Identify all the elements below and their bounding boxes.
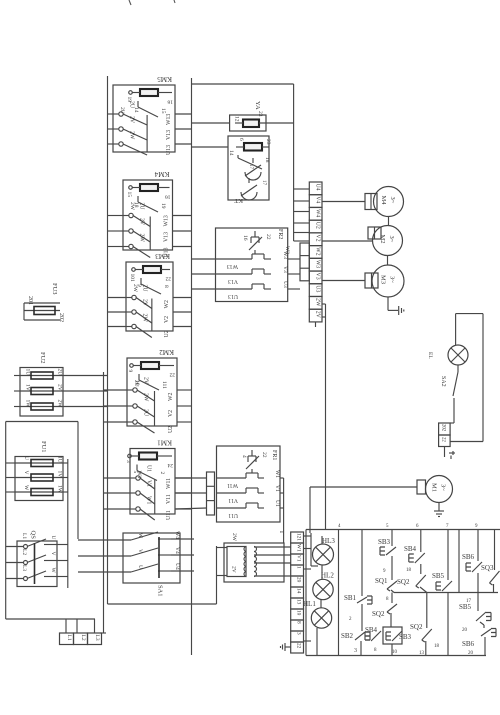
wire PE chain M4-M2 — [388, 216, 390, 226]
svg-text:W3: W3 — [314, 260, 320, 268]
limit switch SQ2 — [387, 604, 397, 612]
svg-text:3~: 3~ — [440, 484, 447, 491]
svg-text:6: 6 — [238, 138, 244, 141]
indicator lamp HL1 — [311, 608, 331, 628]
svg-text:W1: W1 — [296, 544, 302, 552]
motor M3 terminal box — [365, 273, 378, 288]
wire to SQ2 — [391, 593, 393, 604]
svg-text:FR1: FR1 — [271, 450, 277, 460]
wire stub below strip — [315, 322, 317, 327]
svg-text:SQ2: SQ2 — [397, 578, 410, 586]
wire strip V2 to M2 — [322, 240, 373, 242]
terminal L3 — [88, 633, 102, 645]
svg-text:6: 6 — [416, 524, 419, 529]
svg-text:23: 23 — [265, 139, 271, 145]
svg-text:W2: W2 — [164, 300, 170, 308]
transformer secondary winding — [254, 547, 257, 577]
svg-text:2U: 2U — [133, 380, 139, 387]
KT delayed contact 1 — [252, 158, 254, 163]
page edge tick marks — [129, 0, 131, 5]
main contact KM3 pole 3 — [126, 326, 132, 328]
svg-text:1V: 1V — [57, 471, 63, 478]
svg-text:U1: U1 — [146, 465, 152, 472]
svg-text:2W: 2W — [231, 533, 237, 542]
switch QS pole 3 — [6, 578, 24, 580]
main contact KM3 pole 2 — [126, 311, 132, 313]
wire SQ2 down — [390, 613, 392, 627]
pushbutton SB5 NC (lower) — [476, 612, 486, 621]
svg-text:2W: 2W — [129, 131, 135, 140]
svg-text:U2: U2 — [314, 222, 320, 229]
wire stubs from panel edge to strip — [294, 188, 310, 190]
wire SB4 to SQ2 — [420, 564, 422, 574]
fuse FU2 element 1 — [20, 375, 63, 377]
switch SA1 pole 2 — [78, 555, 131, 557]
svg-text:3: 3 — [354, 648, 357, 654]
terminal 2V — [309, 309, 322, 322]
terminal W3 — [309, 258, 322, 271]
wire bus stubs to KM4 — [108, 215, 124, 217]
thermal relay FR2 — [216, 228, 288, 302]
wire HL2-HL1 — [320, 600, 322, 609]
svg-text:SQ2: SQ2 — [410, 623, 423, 631]
terminal mini-strip at FR2 output — [300, 243, 309, 281]
wire bus stubs to KM2 — [104, 389, 128, 391]
FR2 heater element 2 — [216, 273, 253, 275]
svg-text:8: 8 — [163, 285, 169, 288]
svg-text:W2: W2 — [168, 393, 174, 401]
svg-text:U13: U13 — [228, 293, 238, 299]
svg-text:V4: V4 — [314, 196, 320, 203]
motor M2 — [373, 226, 403, 256]
transformer T — [224, 543, 284, 582]
pushbutton SB3 — [386, 547, 396, 555]
fuse FU1 element 3 — [15, 491, 63, 493]
wire terminal drops — [65, 619, 67, 633]
svg-text:2W: 2W — [139, 234, 145, 243]
svg-text:V11: V11 — [166, 494, 172, 504]
coil YA — [243, 120, 259, 128]
wire control rail 2 — [338, 530, 340, 656]
svg-text:14: 14 — [296, 588, 302, 594]
svg-text:KM4: KM4 — [154, 170, 169, 178]
svg-text:U3: U3 — [282, 281, 288, 288]
terminal mini-strip before FR1 — [207, 472, 215, 515]
svg-text:M1: M1 — [431, 483, 438, 492]
fuse FU2 element 2 — [20, 390, 63, 392]
main contact KM1 pole 2 — [130, 492, 136, 494]
svg-text:2U: 2U — [142, 285, 148, 293]
svg-text:3~: 3~ — [389, 197, 396, 204]
svg-text:8: 8 — [374, 648, 377, 653]
ground symbol below M3 — [387, 297, 389, 310]
svg-text:15: 15 — [160, 108, 166, 114]
ground at control strip — [285, 646, 291, 648]
svg-text:SB5: SB5 — [459, 603, 472, 611]
main contact tie bar KM4 — [149, 217, 151, 251]
svg-text:17: 17 — [261, 180, 266, 186]
FR1 heater element 1 — [217, 477, 247, 479]
svg-text:SB5: SB5 — [432, 572, 445, 580]
svg-text:V13: V13 — [228, 278, 238, 284]
wire HL3 feed loop — [310, 533, 312, 566]
wire lighting circuit right side — [482, 314, 484, 442]
svg-text:W1: W1 — [136, 471, 142, 479]
wire FU1 right stubs — [63, 462, 68, 464]
svg-text:SB3: SB3 — [399, 633, 412, 641]
svg-text:16: 16 — [242, 235, 248, 241]
terminal 3 — [291, 631, 304, 642]
svg-text:V13: V13 — [166, 130, 172, 140]
svg-text:W4: W4 — [314, 209, 320, 217]
svg-text:L1: L1 — [66, 635, 72, 641]
svg-text:SB4: SB4 — [404, 545, 417, 553]
svg-text:SB1: SB1 — [344, 594, 357, 602]
svg-text:M3: M3 — [380, 275, 387, 284]
wire SB2 bottom — [360, 641, 362, 656]
svg-text:L3: L3 — [94, 635, 100, 641]
svg-text:U11: U11 — [228, 512, 238, 518]
solenoid YA — [230, 115, 266, 131]
svg-text:2W: 2W — [129, 202, 135, 211]
main contact tie bar KM5 — [146, 115, 148, 152]
enclosure: power panel boundary — [192, 83, 294, 85]
svg-text:8: 8 — [296, 621, 302, 624]
main contact tie bar KM3 — [151, 299, 153, 332]
wire mid horizontal rail — [394, 592, 498, 594]
svg-text:SQ3: SQ3 — [481, 564, 494, 572]
FR2 heater element 1 — [216, 258, 253, 260]
svg-text:3: 3 — [296, 632, 302, 635]
wire strip 2V stub — [322, 316, 326, 318]
terminal 10 — [291, 609, 304, 620]
pushbutton SB5 — [442, 581, 452, 591]
main contact tie bar KM1 — [154, 479, 156, 514]
svg-text:V1: V1 — [296, 555, 302, 562]
wire to bottom — [484, 637, 486, 656]
svg-text:2V: 2V — [231, 566, 237, 573]
wire M1 feed drop to control box — [309, 487, 311, 533]
main contact KM2 pole 3 — [127, 421, 133, 423]
pushbutton SB6 NC (lower) — [481, 629, 491, 636]
svg-text:2: 2 — [159, 472, 165, 475]
fuse FU1 element 2 — [15, 477, 63, 479]
svg-text:2V: 2V — [57, 384, 63, 391]
svg-text:L3: L3 — [21, 565, 27, 571]
svg-text:101: 101 — [129, 274, 135, 283]
svg-text:7: 7 — [446, 524, 449, 529]
svg-text:EL: EL — [427, 352, 433, 359]
contactor KM5 box — [113, 85, 175, 152]
wire SB5 NC branch — [477, 593, 479, 612]
wire FU1 left stubs to supply riser — [6, 462, 15, 464]
svg-text:V: V — [137, 549, 143, 553]
motor M4 — [374, 187, 404, 217]
terminal U2 — [309, 220, 322, 233]
svg-text:SQ1: SQ1 — [375, 577, 388, 585]
svg-text:U3: U3 — [314, 285, 320, 292]
fuse FU1 element 1 — [15, 462, 63, 464]
svg-text:U: U — [50, 536, 56, 540]
switch QS tie bar — [34, 543, 36, 584]
svg-text:9: 9 — [127, 370, 133, 373]
switch QS pole 1 — [6, 546, 24, 548]
wire bus stubs to KM3 — [108, 297, 127, 299]
main contact KM5 pole 3 — [113, 143, 119, 145]
ground below M1 — [438, 503, 440, 512]
svg-text:SA2: SA2 — [440, 376, 446, 387]
svg-text:1W: 1W — [25, 400, 31, 409]
wires KM1 outputs to FR1 terminals — [175, 477, 207, 479]
terminal 1 — [291, 565, 304, 576]
pushbutton SB4 (lower) — [371, 631, 381, 641]
fuse group FU1 — [15, 457, 63, 501]
svg-text:3~: 3~ — [388, 236, 395, 243]
wire SB5 branch upper — [447, 530, 449, 581]
svg-text:2U: 2U — [143, 409, 149, 417]
svg-text:4: 4 — [241, 455, 247, 458]
svg-text:1V: 1V — [25, 384, 31, 391]
svg-text:2: 2 — [349, 617, 352, 622]
FR1 output common riser to transformer — [283, 478, 285, 543]
FR1 NC contact — [251, 450, 253, 456]
svg-text:U11: U11 — [166, 510, 172, 520]
wire control circuit feed riser — [325, 304, 327, 530]
indicator lamp HL3 — [313, 544, 334, 565]
svg-text:20: 20 — [462, 628, 468, 633]
svg-text:U: U — [23, 456, 29, 460]
coil KM1 — [139, 453, 157, 460]
svg-text:2U: 2U — [57, 369, 63, 376]
svg-text:V: V — [23, 471, 29, 475]
time relay KT — [228, 136, 269, 200]
main contact KM1 pole 3 — [130, 508, 136, 510]
svg-text:SB2: SB2 — [341, 632, 354, 640]
switch SA1 pole 1 — [78, 539, 131, 541]
main contact KM2 pole 2 — [127, 405, 133, 407]
terminal 22 — [439, 435, 451, 447]
coil KM2 — [141, 362, 159, 369]
wire: main vertical bus (2U/2V/2W feed to contactor column) — [107, 76, 109, 604]
svg-text:U13: U13 — [166, 145, 172, 155]
terminal W1 — [291, 543, 304, 554]
limit switch SQ2 (lower) — [422, 629, 432, 640]
svg-text:121: 121 — [296, 533, 302, 541]
KT instantaneous contact — [237, 155, 239, 158]
switch SA1 pole 3 — [78, 571, 131, 573]
limit switch SQ1 — [387, 581, 397, 589]
switch SA1 tie bar — [158, 537, 160, 578]
svg-text:SA1: SA1 — [157, 585, 164, 597]
terminal 13 — [291, 598, 304, 609]
svg-text:201: 201 — [27, 296, 33, 305]
svg-text:U4: U4 — [314, 184, 320, 191]
svg-text:12: 12 — [234, 116, 240, 122]
contactor KM4 box — [123, 180, 173, 250]
main contact KM1 pole 1 — [130, 477, 136, 479]
auxiliary contact KM5 — [137, 101, 139, 107]
motor M1 — [426, 476, 453, 503]
auxiliary contact KM4 — [137, 196, 139, 202]
pushbutton SB1 — [357, 597, 367, 603]
coil KT — [244, 143, 262, 151]
fuse FU3 with clamp bracket — [24, 303, 60, 320]
svg-text:22: 22 — [265, 234, 271, 240]
svg-text:3~: 3~ — [389, 276, 396, 283]
svg-text:W: W — [23, 485, 29, 491]
enclosure: control panel box — [306, 529, 500, 531]
svg-text:W11: W11 — [166, 478, 172, 489]
contactor KM3 box — [126, 262, 173, 331]
terminal U4 — [309, 182, 322, 195]
wire SB1 branch upper — [361, 530, 363, 597]
limit switch SQ3 — [490, 571, 500, 583]
ground stub below lighting terminals — [444, 447, 446, 458]
svg-text:2W: 2W — [132, 284, 138, 293]
wire: second vertical bus feeding KM2/KM1 — [103, 372, 105, 633]
svg-text:SQ2: SQ2 — [372, 610, 385, 618]
svg-text:HL3: HL3 — [322, 537, 335, 545]
wire FU2 outputs to bus — [63, 375, 108, 377]
wire strip 2W jog to control feed — [322, 303, 326, 305]
svg-text:22: 22 — [296, 643, 302, 649]
svg-text:W13: W13 — [164, 215, 170, 226]
wire strip V4 to M4 — [322, 201, 365, 203]
svg-text:2W: 2W — [314, 298, 320, 307]
switch QS pole 2 — [6, 562, 24, 564]
transformer primary winding — [244, 547, 247, 577]
contactor KM1 box — [130, 449, 175, 515]
terminal V3 — [309, 271, 322, 284]
svg-text:FU3: FU3 — [51, 283, 58, 295]
svg-text:2W: 2W — [57, 400, 63, 409]
wire SQ3 branch — [494, 530, 496, 571]
svg-text:1U: 1U — [57, 456, 63, 463]
svg-text:HL2: HL2 — [321, 572, 334, 580]
svg-text:W2: W2 — [314, 247, 320, 255]
terminal 2W — [309, 296, 322, 309]
svg-text:SB4: SB4 — [365, 626, 378, 634]
terminal V1 — [291, 554, 304, 565]
wire rail at 459 — [458, 530, 460, 593]
svg-text:19: 19 — [160, 203, 166, 209]
pushbutton SB3 (lower) — [392, 631, 402, 641]
wire FU2 inputs — [14, 375, 20, 377]
svg-text:FR2: FR2 — [277, 229, 283, 239]
switch QS (main isolator) — [17, 541, 57, 587]
svg-text:U1: U1 — [274, 500, 280, 507]
svg-text:W: W — [137, 533, 143, 539]
terminal 14 — [291, 587, 304, 598]
auxiliary contact KM1 — [136, 465, 138, 471]
svg-text:22: 22 — [169, 372, 175, 378]
terminal L2 — [74, 633, 88, 645]
wire SB6 branch upper — [477, 530, 479, 562]
main contact KM4 pole 1 — [123, 215, 129, 217]
wire SB3 branch upper — [391, 530, 393, 547]
svg-text:2U: 2U — [139, 203, 145, 211]
wire: supply riser to incoming terminals — [5, 422, 7, 620]
coil KM5 — [140, 89, 158, 96]
svg-text:1W: 1W — [57, 485, 63, 494]
svg-text:L1: L1 — [21, 533, 27, 539]
svg-text:3: 3 — [125, 460, 131, 463]
svg-text:KM5: KM5 — [157, 75, 172, 83]
svg-text:14: 14 — [228, 150, 234, 156]
main contact KM4 pole 2 — [123, 230, 129, 232]
svg-text:YA: YA — [254, 101, 261, 110]
KT delayed contact 2 — [248, 178, 250, 183]
terminal 20 — [291, 576, 304, 587]
wire: link FU1 area to SA1 feed — [6, 421, 78, 423]
fuse FU2 element 3 — [20, 406, 63, 408]
svg-text:16: 16 — [165, 194, 171, 200]
svg-text:KM2: KM2 — [159, 348, 174, 356]
wire jog — [480, 622, 484, 625]
svg-text:V2: V2 — [168, 410, 174, 417]
svg-text:V2: V2 — [164, 316, 170, 323]
pushbutton SB2 — [355, 632, 365, 640]
svg-text:13: 13 — [419, 651, 425, 656]
wire FR2 input stubs — [192, 258, 216, 260]
terminal strip L1 L2 L3 (supply inlet) — [6, 618, 95, 620]
enclosure box around SA1 — [108, 546, 217, 604]
svg-text:L2: L2 — [80, 635, 86, 641]
svg-text:W1: W1 — [274, 470, 280, 478]
svg-text:2W: 2W — [143, 393, 149, 402]
terminal 121 — [291, 532, 304, 543]
svg-text:2W: 2W — [142, 314, 148, 323]
svg-text:202: 202 — [441, 424, 446, 432]
terminal V4 — [309, 195, 322, 208]
svg-text:W13: W13 — [166, 114, 172, 125]
svg-text:V2: V2 — [314, 234, 320, 241]
terminal 8 — [291, 620, 304, 631]
svg-text:2V: 2V — [139, 218, 145, 226]
svg-text:V: V — [50, 552, 56, 556]
svg-text:2V: 2V — [142, 299, 148, 307]
svg-text:V13: V13 — [164, 232, 170, 242]
svg-text:4: 4 — [338, 524, 341, 529]
terminal W4 — [309, 207, 322, 220]
svg-text:18: 18 — [406, 568, 412, 573]
terminal 202 — [439, 423, 451, 435]
svg-text:1U: 1U — [25, 369, 31, 376]
svg-text:24: 24 — [167, 462, 173, 468]
svg-text:W: W — [50, 568, 56, 574]
svg-text:10: 10 — [392, 650, 398, 655]
svg-text:5: 5 — [386, 524, 389, 529]
svg-text:202: 202 — [58, 313, 64, 322]
svg-text:16: 16 — [167, 99, 173, 105]
motor M1 terminal box — [417, 480, 426, 494]
FR2 NC contact — [254, 231, 256, 237]
main contact KM4 pole 3 — [123, 246, 129, 248]
parallel pair SB4/SB3 box — [383, 627, 402, 644]
svg-text:W3: W3 — [282, 251, 288, 259]
main contact KM5 pole 1 — [113, 113, 119, 115]
svg-text:15: 15 — [126, 192, 132, 198]
svg-text:W1: W1 — [146, 496, 152, 504]
lamp EL — [455, 314, 457, 345]
svg-text:V3: V3 — [282, 266, 288, 273]
svg-text:SB6: SB6 — [462, 553, 475, 561]
svg-text:HL1: HL1 — [303, 600, 316, 608]
fuse group FU2 — [20, 368, 63, 417]
wire M1 feed — [310, 486, 417, 488]
wire bus stubs to KM5 — [108, 113, 114, 115]
wire SB1 to SB2 — [361, 604, 363, 631]
